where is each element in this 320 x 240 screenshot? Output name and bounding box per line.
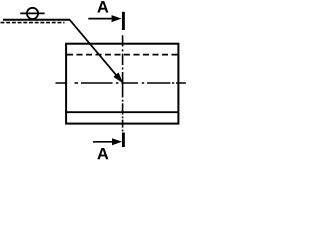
vertical section cutting line (chain, explicit dashes) — [122, 35, 124, 131]
leader line (diagonal) — [70, 20, 118, 77]
section marker thick bar (bottom) — [122, 133, 125, 148]
horizontal centerline (chain, explicit dashes) — [56, 82, 186, 84]
label A (bottom) — [97, 148, 108, 159]
leader arrowhead — [114, 73, 123, 83]
label A (top) — [97, 1, 108, 12]
weld identification line (dashed) — [1, 22, 65, 24]
hidden (dashed) line near top — [67, 54, 177, 56]
weld symbol: seam-weld circle — [27, 8, 38, 19]
section marker thick bar (top) — [122, 12, 125, 30]
part outline rectangle — [66, 44, 178, 124]
section arrow (top) — [88, 18, 113, 20]
weld reference line (solid) — [3, 19, 70, 21]
section arrow (bottom) — [93, 141, 114, 143]
weld symbol: line through circle — [20, 12, 44, 14]
solid inner line near bottom — [67, 111, 177, 113]
